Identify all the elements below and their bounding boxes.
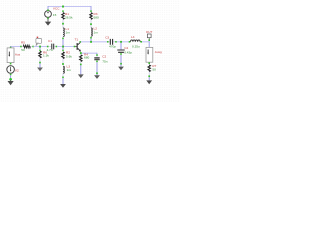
svg-text:T1: T1: [75, 37, 79, 41]
svg-text:75n: 75n: [102, 59, 107, 63]
node dot: [120, 63, 122, 65]
svg-text:15: 15: [53, 13, 57, 17]
source V2 (signal generator): [7, 66, 15, 76]
node junction base feed: [62, 46, 64, 48]
wire L1 to base node: [62, 39, 64, 46]
meter box AM1 (input): [7, 48, 14, 65]
wire input row left: [11, 46, 21, 48]
wire VCC top rail: [48, 6, 91, 11]
node dot between R3 and L2: [90, 23, 92, 25]
label C4: [124, 46, 128, 50]
ground (below C2): [94, 74, 100, 79]
resistor R4 (emitter): [80, 54, 82, 65]
resistor R3 (collector load, upper): [90, 10, 92, 23]
value 5.6k: [66, 54, 72, 58]
label T1: [75, 37, 79, 41]
wire: [62, 25, 64, 29]
node A junction: [39, 46, 41, 48]
svg-text:Ausg: Ausg: [155, 50, 162, 54]
capacitor C4 (shunt to ground): [117, 43, 124, 55]
label R4: [84, 52, 88, 56]
svg-text:1m: 1m: [66, 31, 71, 35]
svg-text:0.25u: 0.25u: [132, 44, 140, 48]
terminal OUT square: [147, 34, 151, 41]
svg-text:26.5k: 26.5k: [65, 16, 73, 20]
transistor T1: [74, 41, 82, 54]
value 1m: [94, 30, 99, 34]
value 0.25u: [132, 44, 140, 48]
label L1: [66, 27, 70, 31]
value 470p: [109, 45, 116, 49]
label C2: [102, 55, 106, 59]
capacitor C2 (emitter bypass): [94, 54, 99, 62]
wire C4 to ground: [120, 55, 122, 64]
svg-text:1.3k: 1.3k: [43, 54, 49, 58]
value 75n: [102, 59, 107, 63]
ground (below C4): [118, 64, 124, 70]
ground (below V2): [8, 80, 14, 85]
label L2: [94, 27, 98, 31]
node dot: [9, 78, 12, 81]
node junction on rail: [62, 6, 64, 8]
wire collector row: [81, 41, 108, 43]
value 50: [152, 68, 156, 72]
junction at C4 tap: [120, 41, 122, 43]
svg-text:680: 680: [94, 16, 99, 20]
svg-text:1m: 1m: [94, 30, 99, 34]
svg-text:C2: C2: [102, 55, 106, 59]
voltage source V1 VCC: [45, 9, 52, 19]
label L4: [131, 35, 135, 39]
wire L2 down to collector row: [90, 39, 92, 42]
label R1: [65, 12, 69, 16]
resistor R5 (source series): [20, 45, 34, 48]
svg-text:50: 50: [152, 68, 156, 72]
resistor R2 (base node to ground, upper of pair): [62, 48, 64, 64]
junction emitter node: [80, 52, 82, 54]
svg-text:680: 680: [84, 55, 89, 59]
node dot between R2 and L3: [62, 63, 64, 65]
svg-text:C1: C1: [48, 39, 52, 43]
svg-text:0.43p: 0.43p: [124, 51, 132, 55]
label Ausg: [155, 50, 162, 54]
label R6: [43, 50, 47, 54]
wire L4 to OUT node: [142, 41, 150, 47]
label Aus (input meter): [15, 53, 21, 57]
svg-text:VCC: VCC: [53, 7, 60, 11]
svg-text:1m: 1m: [67, 68, 72, 72]
label R2: [66, 51, 70, 55]
junction collector node: [90, 41, 92, 43]
resistor R7 (load): [148, 64, 150, 77]
wire V2 to ground: [10, 75, 12, 78]
wire: [90, 25, 92, 28]
label VCC: [53, 7, 60, 11]
wire: [34, 46, 48, 48]
value 1m: [67, 68, 72, 72]
svg-text:50: 50: [21, 48, 25, 52]
svg-text:C3: C3: [105, 35, 109, 39]
value 0.43p: [124, 51, 132, 55]
svg-text:Aus: Aus: [15, 53, 21, 57]
capacitor C3 (interstage coupling): [107, 39, 117, 45]
emitter wire to bypass cap: [81, 53, 97, 55]
svg-text:V2: V2: [15, 69, 19, 73]
svg-text:4.7u: 4.7u: [47, 48, 53, 52]
label R7: [152, 64, 156, 68]
value label 15: [53, 13, 57, 17]
capacitor C1 (input coupling): [47, 44, 57, 50]
meter box AM2 (output): [146, 47, 153, 64]
ground (below R7): [146, 77, 152, 84]
wire C1 to base: [57, 46, 74, 48]
inductor L3: [62, 66, 64, 78]
svg-text:L4: L4: [131, 35, 135, 39]
wire C2 to ground: [96, 62, 98, 73]
resistor R1 (VCC to base feed, upper): [62, 10, 64, 23]
label R5: [21, 40, 25, 44]
value 26.5k: [65, 16, 73, 20]
label V2: [15, 69, 19, 73]
value 1.3k: [43, 54, 49, 58]
ground (below R4): [78, 65, 84, 78]
label C3: [105, 35, 109, 39]
svg-text:C4: C4: [124, 46, 128, 50]
svg-text:470p: 470p: [109, 45, 116, 49]
ground (below R6): [37, 63, 43, 71]
resistor R6 (shunt to ground): [39, 48, 41, 64]
svg-text:R5: R5: [21, 40, 25, 44]
label OUT: [146, 30, 153, 34]
inductor L2: [90, 28, 92, 39]
svg-text:OUT: OUT: [146, 30, 153, 34]
value 680: [94, 16, 99, 20]
label C1: [48, 39, 52, 43]
label L3: [67, 64, 71, 68]
value 680: [84, 55, 89, 59]
value 1m: [66, 31, 71, 35]
label R3: [94, 12, 98, 16]
ground (below VCC source): [45, 19, 51, 26]
ground (below L3): [60, 78, 66, 88]
svg-text:5.6k: 5.6k: [66, 54, 72, 58]
inductor L1: [62, 28, 64, 39]
pin: [10, 47, 12, 49]
probe flag marker at node A: [36, 37, 42, 46]
node dot between R1 and L1: [62, 23, 64, 25]
node dot: [96, 72, 98, 74]
wire C3 to L4: [117, 41, 130, 43]
value 4.7u: [47, 48, 53, 52]
inductor L4 (series output): [129, 40, 142, 43]
value 50: [21, 48, 25, 52]
